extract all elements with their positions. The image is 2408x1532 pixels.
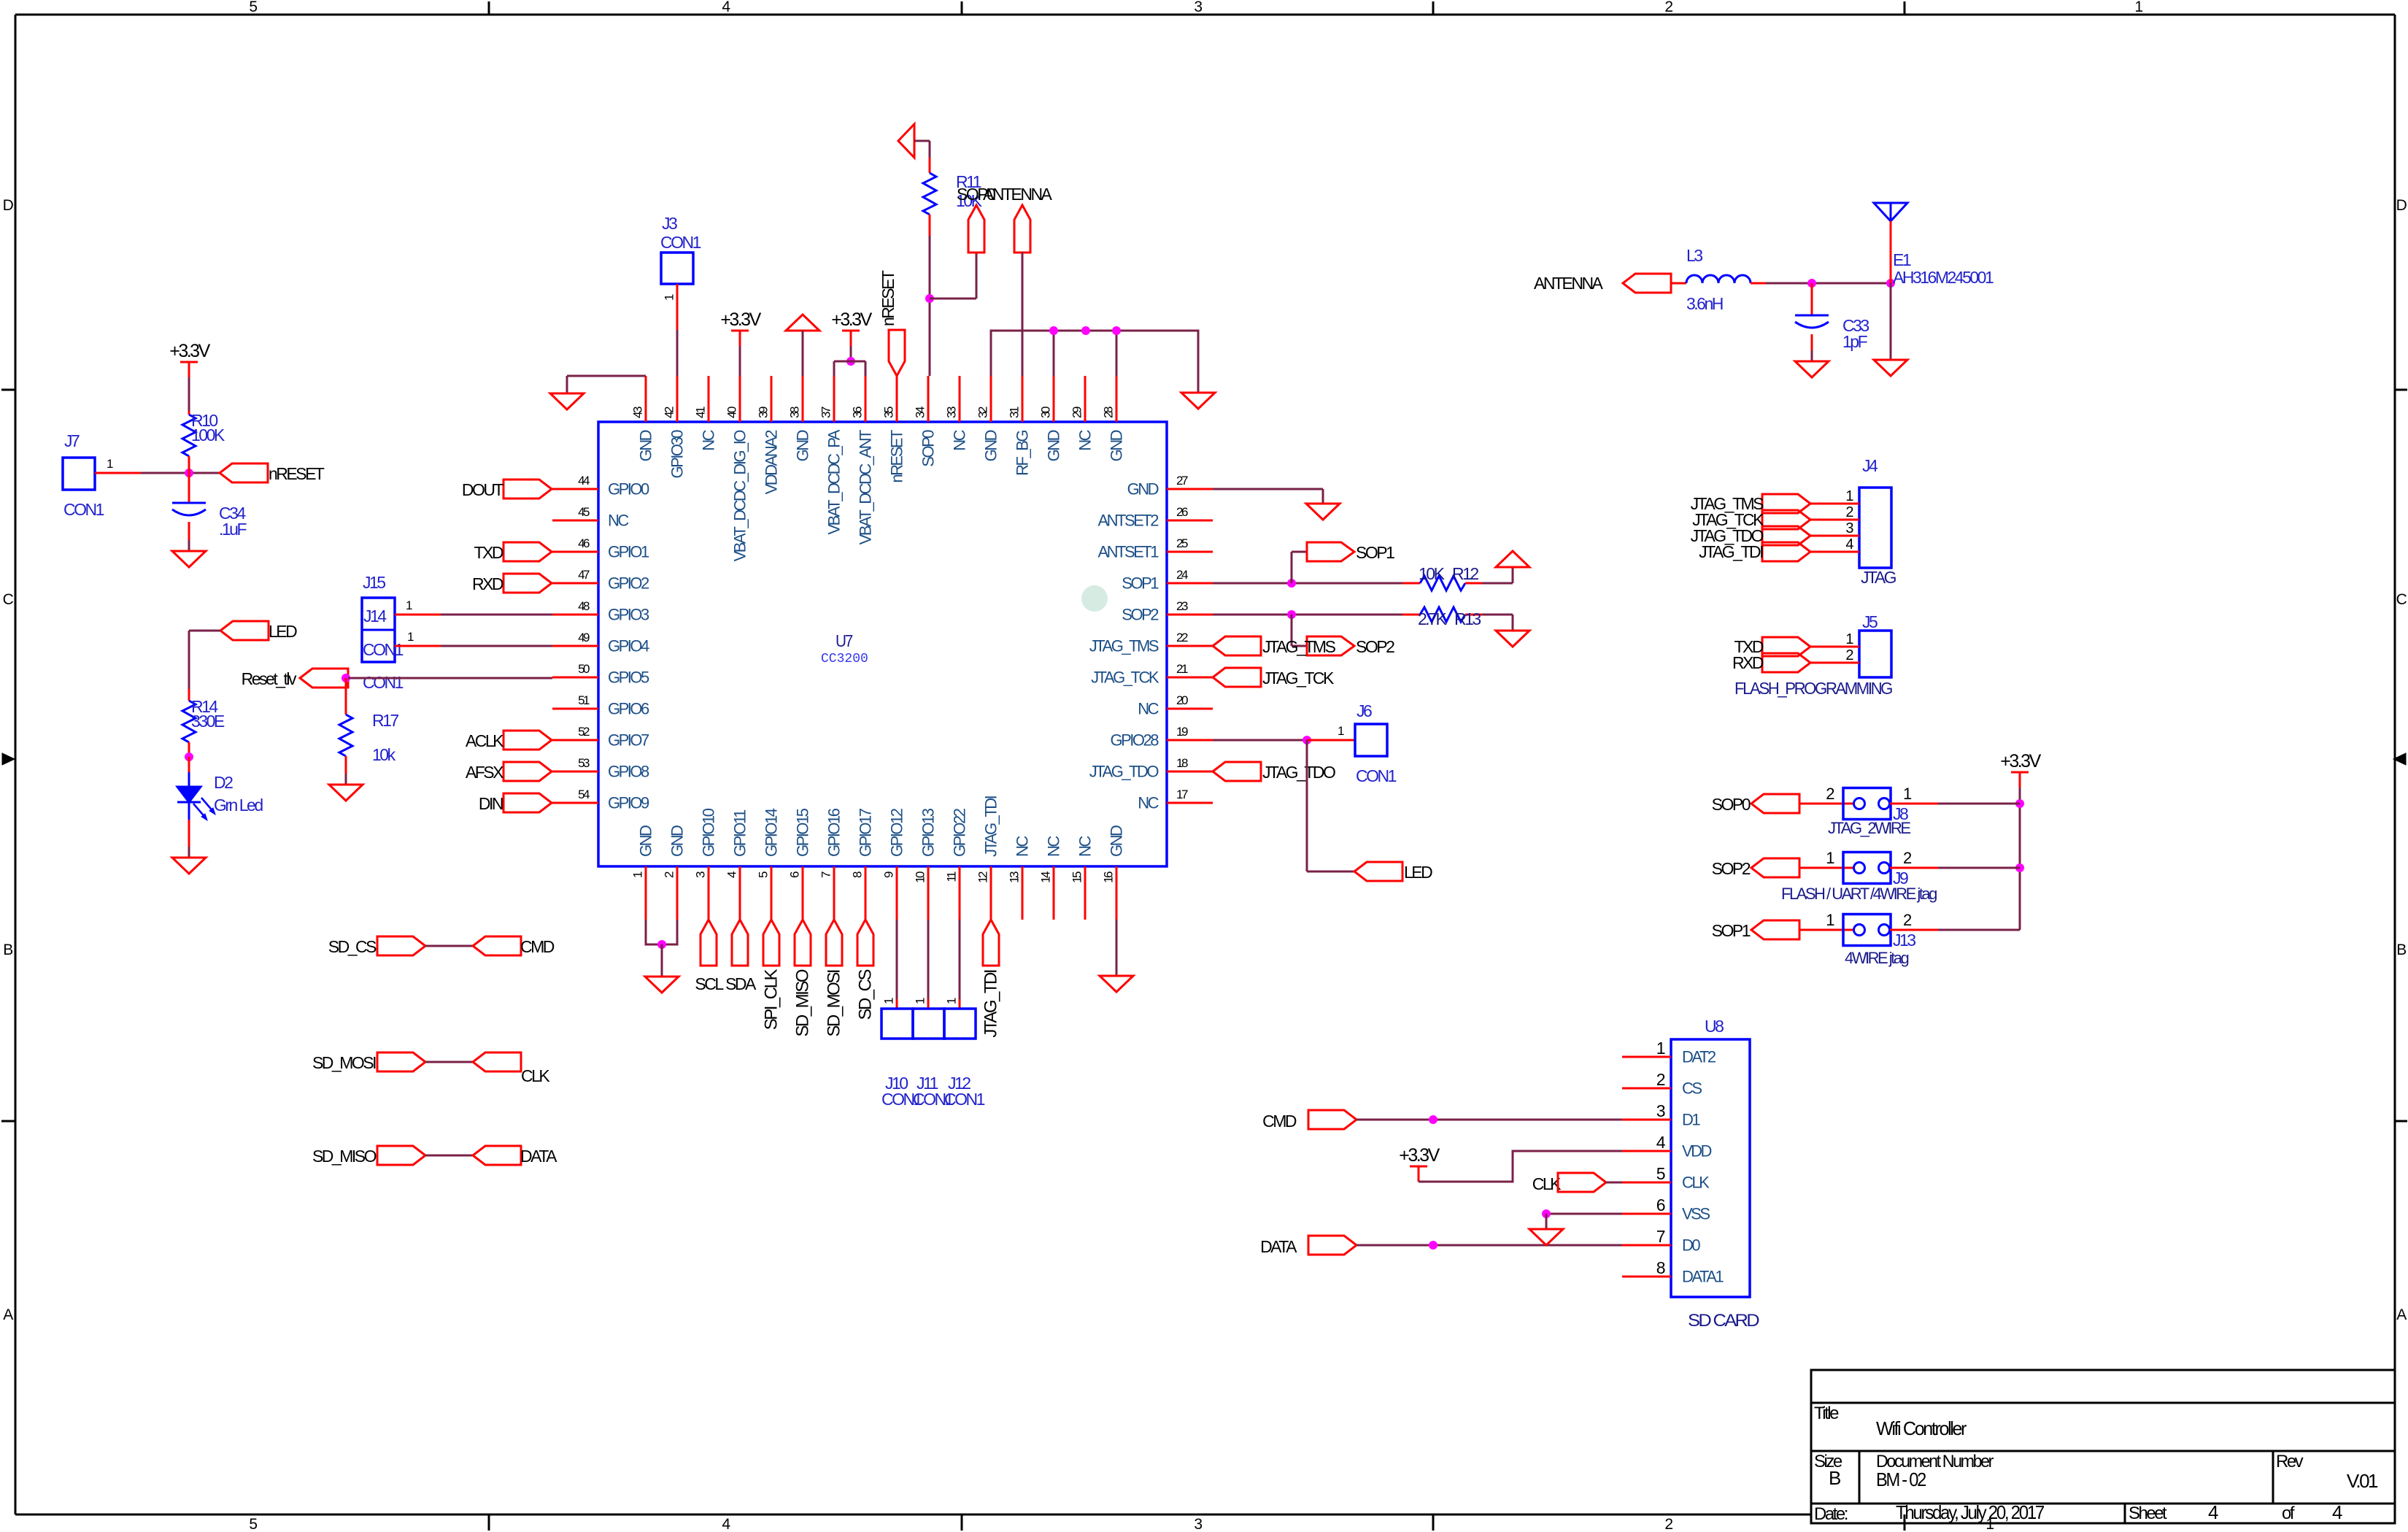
- svg-text:J6: J6: [1357, 701, 1372, 720]
- svg-text:GPIO11: GPIO11: [731, 809, 749, 857]
- svg-text:DATA1: DATA1: [1682, 1268, 1724, 1286]
- svg-text:SOP1: SOP1: [1712, 921, 1751, 940]
- svg-text:D1: D1: [1682, 1111, 1700, 1129]
- svg-text:SOP1: SOP1: [1122, 574, 1159, 593]
- svg-text:39: 39: [757, 407, 771, 418]
- svg-text:23: 23: [1176, 599, 1188, 613]
- svg-text:R17: R17: [372, 711, 398, 730]
- svg-text:44: 44: [578, 474, 590, 488]
- svg-text:GPIO9: GPIO9: [608, 794, 649, 812]
- svg-text:28: 28: [1102, 407, 1116, 418]
- svg-text:GPIO16: GPIO16: [825, 808, 844, 857]
- svg-text:J14: J14: [363, 607, 387, 625]
- svg-text:TXD: TXD: [474, 543, 503, 562]
- svg-text:nRESET: nRESET: [269, 464, 325, 483]
- svg-text:GPIO30: GPIO30: [668, 430, 687, 479]
- svg-text:10k: 10k: [372, 745, 396, 764]
- svg-text:AH316M245001: AH316M245001: [1893, 268, 1994, 287]
- svg-text:GPIO1: GPIO1: [608, 543, 649, 561]
- svg-text:4: 4: [2208, 1501, 2218, 1523]
- svg-text:46: 46: [578, 536, 590, 550]
- svg-text:19: 19: [1176, 725, 1188, 739]
- svg-text:VBAT_DCDC_DIG_IO: VBAT_DCDC_DIG_IO: [731, 430, 749, 562]
- svg-text:Title: Title: [1814, 1404, 1839, 1423]
- svg-text:SOP0: SOP0: [919, 430, 938, 467]
- svg-text:GPIO10: GPIO10: [700, 808, 718, 857]
- svg-text:GPIO14: GPIO14: [763, 808, 781, 857]
- svg-text:ACLK: ACLK: [466, 731, 504, 750]
- svg-text:25: 25: [1176, 536, 1188, 550]
- svg-text:+3.3V: +3.3V: [831, 309, 872, 330]
- svg-text:DATA: DATA: [520, 1147, 557, 1166]
- svg-text:37: 37: [819, 407, 833, 418]
- svg-text:GND: GND: [794, 430, 812, 461]
- svg-text:GND: GND: [1045, 430, 1063, 461]
- svg-text:5: 5: [1656, 1164, 1665, 1183]
- svg-text:GPIO22: GPIO22: [951, 808, 969, 857]
- svg-text:GPIO17: GPIO17: [857, 808, 875, 857]
- svg-text:VDDANA2: VDDANA2: [763, 430, 781, 495]
- svg-text:+3.3V: +3.3V: [169, 341, 210, 361]
- svg-text:V.01: V.01: [2347, 1470, 2378, 1492]
- svg-text:E1: E1: [1893, 250, 1911, 269]
- svg-text:21: 21: [1176, 662, 1188, 676]
- svg-text:11: 11: [945, 871, 959, 882]
- svg-text:CC3200: CC3200: [821, 652, 868, 666]
- svg-text:7: 7: [1656, 1227, 1665, 1246]
- svg-text:CMD: CMD: [520, 937, 555, 956]
- svg-text:Grn Led: Grn Led: [214, 796, 263, 815]
- svg-text:LED: LED: [1404, 863, 1432, 882]
- svg-text:42: 42: [663, 407, 676, 418]
- svg-text:JTAG_2WIRE: JTAG_2WIRE: [1828, 819, 1910, 837]
- svg-text:24: 24: [1176, 568, 1188, 582]
- svg-text:54: 54: [578, 788, 590, 801]
- svg-text:4WIRE jtag: 4WIRE jtag: [1845, 949, 1909, 967]
- svg-text:SPI_CLK: SPI_CLK: [762, 969, 782, 1031]
- svg-text:2: 2: [1656, 1070, 1665, 1089]
- svg-text:45: 45: [578, 505, 590, 519]
- svg-text:GPIO28: GPIO28: [1111, 731, 1159, 750]
- svg-text:GND: GND: [637, 430, 655, 461]
- svg-text:NC: NC: [608, 512, 629, 530]
- svg-text:41: 41: [694, 407, 708, 418]
- svg-text:14: 14: [1039, 871, 1053, 883]
- svg-text:GPIO3: GPIO3: [608, 606, 649, 624]
- svg-text:CON1: CON1: [363, 640, 404, 659]
- svg-text:31: 31: [1008, 407, 1022, 418]
- svg-text:GPIO7: GPIO7: [608, 731, 649, 750]
- svg-text:U8: U8: [1705, 1017, 1724, 1036]
- svg-text:3.6nH: 3.6nH: [1686, 294, 1723, 313]
- svg-text:GPIO0: GPIO0: [608, 480, 649, 499]
- svg-text:22: 22: [1176, 631, 1188, 644]
- svg-text:GPIO5: GPIO5: [608, 669, 649, 687]
- svg-text:.1uF: .1uF: [219, 520, 247, 539]
- svg-text:1pF: 1pF: [1842, 332, 1868, 351]
- svg-text:L3: L3: [1686, 246, 1702, 265]
- svg-text:VDD: VDD: [1682, 1142, 1712, 1160]
- svg-text:SD_MISO: SD_MISO: [793, 969, 813, 1036]
- svg-text:NC: NC: [1014, 836, 1032, 857]
- svg-text:10: 10: [914, 871, 927, 883]
- svg-text:50: 50: [578, 662, 590, 676]
- svg-text:48: 48: [578, 599, 590, 613]
- svg-text:D2: D2: [214, 773, 233, 792]
- svg-text:B: B: [1829, 1467, 1840, 1489]
- svg-text:NC: NC: [951, 429, 969, 450]
- svg-text:43: 43: [631, 407, 645, 418]
- svg-text:DOUT: DOUT: [462, 480, 504, 499]
- svg-text:38: 38: [788, 407, 802, 418]
- svg-text:SDA: SDA: [725, 974, 757, 993]
- svg-text:15: 15: [1070, 871, 1084, 883]
- svg-text:GND: GND: [668, 825, 687, 857]
- svg-text:JTAG: JTAG: [1861, 568, 1896, 587]
- svg-text:SOP0: SOP0: [1712, 795, 1751, 814]
- svg-text:40: 40: [725, 407, 739, 418]
- svg-text:6: 6: [1656, 1196, 1665, 1215]
- svg-text:B: B: [2396, 942, 2406, 958]
- svg-text:ANTENNA: ANTENNA: [983, 185, 1053, 204]
- svg-text:1: 1: [1656, 1039, 1665, 1058]
- svg-text:+3.3V: +3.3V: [1399, 1145, 1440, 1166]
- svg-text:3: 3: [1656, 1101, 1665, 1120]
- svg-text:SOP2: SOP2: [1122, 606, 1159, 624]
- svg-text:12: 12: [976, 871, 990, 883]
- svg-text:10K: 10K: [1419, 564, 1446, 583]
- svg-text:CLK: CLK: [1682, 1174, 1710, 1192]
- svg-text:VBAT_DCDC_PA: VBAT_DCDC_PA: [825, 429, 844, 534]
- svg-text:ANTSET1: ANTSET1: [1097, 543, 1159, 561]
- svg-text:SOP2: SOP2: [1712, 859, 1751, 878]
- svg-text:53: 53: [578, 756, 590, 770]
- svg-text:SD_MISO: SD_MISO: [312, 1147, 377, 1166]
- svg-text:GND: GND: [1108, 825, 1126, 857]
- svg-text:29: 29: [1070, 407, 1084, 418]
- svg-text:RXD: RXD: [1732, 653, 1764, 672]
- svg-text:NC: NC: [1076, 429, 1095, 450]
- svg-text:Wifi Controller: Wifi Controller: [1876, 1417, 1967, 1439]
- svg-text:18: 18: [1176, 756, 1188, 770]
- svg-text:RXD: RXD: [472, 574, 503, 593]
- svg-text:Reset_tlv: Reset_tlv: [242, 669, 297, 688]
- svg-text:J15: J15: [363, 573, 385, 592]
- svg-text:DAT2: DAT2: [1682, 1048, 1716, 1066]
- svg-text:2.7K: 2.7K: [1418, 609, 1447, 628]
- svg-text:36: 36: [851, 407, 865, 418]
- svg-text:FLASH_PROGRAMMING: FLASH_PROGRAMMING: [1734, 679, 1893, 698]
- svg-text:VSS: VSS: [1682, 1205, 1710, 1223]
- svg-text:B: B: [3, 942, 12, 958]
- svg-text:330E: 330E: [191, 712, 225, 731]
- svg-text:SD CARD: SD CARD: [1688, 1311, 1759, 1331]
- svg-text:CS: CS: [1682, 1079, 1702, 1098]
- svg-text:nRESET: nRESET: [879, 270, 898, 326]
- svg-text:4: 4: [2332, 1501, 2342, 1523]
- svg-text:GPIO2: GPIO2: [608, 574, 649, 593]
- svg-text:ANTENNA: ANTENNA: [1534, 274, 1604, 293]
- svg-text:GPIO12: GPIO12: [888, 808, 906, 857]
- svg-text:LED: LED: [269, 622, 297, 641]
- svg-text:GND: GND: [637, 825, 655, 857]
- svg-text:AFSX: AFSX: [466, 763, 503, 782]
- svg-text:JTAG_TCK: JTAG_TCK: [1091, 669, 1159, 687]
- svg-text:52: 52: [578, 725, 590, 739]
- svg-text:JTAG_TDO: JTAG_TDO: [1089, 763, 1159, 781]
- svg-text:34: 34: [914, 407, 927, 418]
- svg-text:GPIO8: GPIO8: [608, 763, 649, 781]
- svg-text:13: 13: [1008, 871, 1022, 883]
- svg-text:DATA: DATA: [1260, 1237, 1297, 1256]
- svg-text:SD_MOSI: SD_MOSI: [312, 1053, 376, 1072]
- svg-text:VBAT_DCDC_ANT: VBAT_DCDC_ANT: [857, 430, 875, 544]
- svg-text:JTAG_TMS: JTAG_TMS: [1089, 637, 1159, 655]
- svg-text:DIN: DIN: [479, 794, 503, 813]
- svg-text:CON1: CON1: [1356, 766, 1397, 785]
- svg-text:33: 33: [945, 407, 959, 418]
- svg-text:FLASH / UART /4WIRE jtag: FLASH / UART /4WIRE jtag: [1781, 885, 1937, 903]
- svg-text:NC: NC: [1138, 700, 1159, 718]
- svg-text:35: 35: [882, 407, 896, 418]
- svg-text:Rev: Rev: [2276, 1452, 2304, 1471]
- svg-text:J13: J13: [1893, 931, 1915, 950]
- svg-text:GND: GND: [1108, 430, 1126, 461]
- svg-text:26: 26: [1176, 505, 1188, 519]
- svg-text:NC: NC: [1138, 794, 1159, 812]
- svg-text:JTAG_TDI: JTAG_TDI: [981, 970, 1001, 1037]
- svg-text:20: 20: [1176, 693, 1188, 707]
- svg-text:+3.3V: +3.3V: [2000, 751, 2041, 771]
- svg-text:32: 32: [976, 407, 990, 418]
- svg-text:17: 17: [1176, 788, 1188, 801]
- svg-text:JTAG_TDI: JTAG_TDI: [1699, 542, 1763, 561]
- svg-text:CON1: CON1: [363, 673, 404, 692]
- svg-text:U7: U7: [836, 631, 853, 650]
- svg-text:nRESET: nRESET: [888, 430, 906, 483]
- svg-text:27: 27: [1176, 474, 1188, 488]
- svg-text:Thursday, July 20, 2017: Thursday, July 20, 2017: [1896, 1501, 2045, 1523]
- svg-text:NC: NC: [1045, 836, 1063, 857]
- svg-text:47: 47: [578, 568, 590, 582]
- svg-text:ANTSET2: ANTSET2: [1097, 512, 1159, 530]
- svg-text:J7: J7: [64, 431, 80, 450]
- svg-text:BM - 02: BM - 02: [1876, 1469, 1926, 1490]
- svg-text:GND: GND: [1127, 480, 1159, 499]
- svg-text:CLK: CLK: [521, 1066, 550, 1085]
- svg-text:Sheet: Sheet: [2129, 1504, 2167, 1523]
- svg-text:GND: GND: [982, 430, 1000, 461]
- svg-text:CMD: CMD: [1262, 1112, 1297, 1131]
- svg-text:NC: NC: [1076, 836, 1095, 857]
- svg-text:NC: NC: [700, 429, 718, 450]
- svg-text:CON1: CON1: [660, 233, 701, 252]
- svg-text:GPIO15: GPIO15: [794, 808, 812, 857]
- svg-text:GPIO6: GPIO6: [608, 700, 649, 718]
- svg-text:RF_BG: RF_BG: [1014, 431, 1032, 476]
- svg-text:JTAG_TMS: JTAG_TMS: [1262, 637, 1336, 656]
- svg-text:SOP1: SOP1: [1356, 543, 1394, 562]
- svg-text:J3: J3: [662, 214, 677, 233]
- svg-text:R13: R13: [1454, 609, 1481, 628]
- svg-text:JTAG_TDI: JTAG_TDI: [982, 796, 1000, 857]
- svg-text:D0: D0: [1682, 1236, 1700, 1255]
- svg-text:16: 16: [1102, 871, 1116, 883]
- svg-text:51: 51: [578, 693, 590, 707]
- svg-text:R12: R12: [1452, 564, 1478, 583]
- svg-text:GPIO13: GPIO13: [919, 808, 938, 857]
- svg-text:SCL: SCL: [695, 974, 724, 993]
- svg-text:SOP2: SOP2: [1356, 637, 1394, 656]
- svg-text:CON1: CON1: [944, 1090, 985, 1109]
- svg-text:JTAG_TCK: JTAG_TCK: [1262, 669, 1335, 688]
- svg-text:JTAG_TDO: JTAG_TDO: [1262, 763, 1335, 782]
- svg-text:8: 8: [1656, 1258, 1665, 1277]
- svg-text:J4: J4: [1862, 456, 1878, 475]
- svg-text:+3.3V: +3.3V: [720, 309, 761, 330]
- svg-text:GPIO4: GPIO4: [608, 637, 649, 655]
- svg-text:SD_CS: SD_CS: [856, 970, 876, 1020]
- svg-text:SD_MOSI: SD_MOSI: [825, 970, 844, 1036]
- svg-text:SD_CS: SD_CS: [328, 937, 377, 956]
- svg-text:J5: J5: [1862, 612, 1878, 631]
- svg-text:CON1: CON1: [63, 500, 104, 519]
- svg-text:Date:: Date:: [1814, 1504, 1848, 1524]
- svg-text:100K: 100K: [191, 426, 225, 444]
- svg-text:49: 49: [578, 631, 590, 644]
- svg-text:30: 30: [1039, 407, 1053, 418]
